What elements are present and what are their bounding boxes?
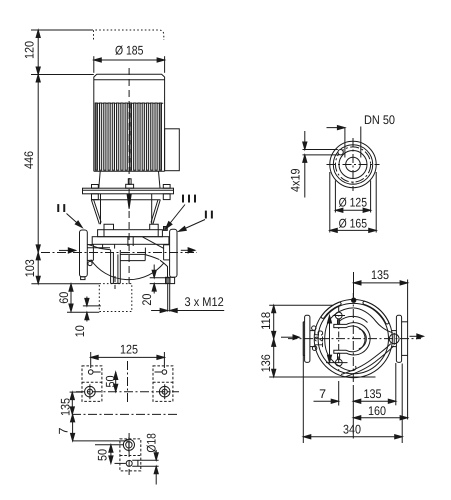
svg-text:III: III bbox=[180, 193, 198, 205]
dimension D18 bbox=[145, 433, 159, 484]
dimension 160 bbox=[353, 385, 407, 439]
flange centerlines bbox=[327, 138, 380, 191]
dimension 20 bbox=[140, 265, 169, 306]
rim hole upper bbox=[312, 326, 316, 330]
flow arrow out bbox=[181, 248, 195, 253]
label III bbox=[166, 193, 198, 229]
support block bbox=[166, 277, 175, 283]
lantern window sill left bbox=[104, 224, 114, 230]
kidney slot upper right bbox=[363, 301, 389, 324]
casing center boss bbox=[128, 237, 133, 246]
motor centerline bbox=[128, 68, 130, 288]
break centerline bbox=[72, 413, 178, 415]
svg-text:125: 125 bbox=[312, 330, 326, 348]
svg-text:135: 135 bbox=[59, 398, 73, 416]
motor shaft stub bbox=[126, 179, 134, 188]
flange F1 foot bbox=[81, 277, 85, 280]
flow arrow out top bbox=[410, 334, 424, 339]
svg-text:4x19: 4x19 bbox=[288, 168, 302, 192]
bearing arc bbox=[340, 316, 368, 322]
svg-text:50: 50 bbox=[104, 375, 118, 387]
svg-text:Ø18: Ø18 bbox=[145, 433, 159, 452]
foot pad center dashed bbox=[120, 439, 141, 471]
motor end bell bbox=[99, 171, 160, 188]
svg-text:20: 20 bbox=[140, 294, 154, 306]
coupling spike bbox=[127, 194, 131, 209]
svg-text:125: 125 bbox=[120, 342, 138, 356]
terminal box bbox=[165, 129, 180, 171]
svg-text:340: 340 bbox=[343, 422, 361, 436]
flange F4 right top bbox=[392, 315, 408, 362]
volute flange face circle bbox=[318, 303, 388, 373]
pilot hole left bbox=[88, 370, 100, 375]
rib centerline white dashes bbox=[129, 104, 131, 170]
feet centerlines bbox=[76, 361, 179, 404]
dimension 340 bbox=[303, 322, 402, 443]
svg-text:50: 50 bbox=[96, 449, 110, 461]
dimension 60 bbox=[57, 284, 100, 313]
flange raised face bbox=[339, 151, 367, 179]
dimension 120 bbox=[23, 30, 41, 75]
kidney slot upper left bbox=[321, 302, 341, 318]
dimension D125 flange bbox=[335, 181, 370, 213]
bolt B2 nut bbox=[163, 194, 170, 200]
gauge hole G1 bbox=[333, 312, 345, 324]
dimension 103 bbox=[23, 252, 40, 283]
dimension 50 center bbox=[96, 445, 126, 464]
foot pad left dashed bbox=[82, 366, 102, 402]
dimension 136 bbox=[259, 339, 376, 377]
bolt B1 head bbox=[92, 185, 99, 189]
dimension 446 bbox=[22, 75, 40, 253]
svg-text:Ø 125: Ø 125 bbox=[339, 195, 367, 209]
svg-text:135: 135 bbox=[371, 268, 389, 282]
gauge hole G2 bbox=[326, 353, 348, 366]
dimension 125 feet bbox=[91, 342, 165, 368]
svg-text:446: 446 bbox=[22, 151, 36, 169]
vent dot bbox=[352, 298, 356, 302]
extension line base plane bbox=[31, 283, 99, 285]
svg-text:10: 10 bbox=[73, 325, 87, 337]
svg-text:3 x M12: 3 x M12 bbox=[185, 295, 224, 309]
dimension 135 top bbox=[354, 268, 408, 420]
svg-text:7: 7 bbox=[319, 387, 326, 401]
dimension 10 bbox=[73, 297, 101, 338]
pilot hole right bbox=[155, 370, 167, 375]
center foot centerline bbox=[95, 433, 129, 478]
rim hole lower bbox=[312, 346, 316, 350]
motor M1 cap bbox=[94, 74, 165, 80]
seal chamber omega bbox=[334, 323, 370, 355]
bolt B2 head bbox=[163, 185, 170, 189]
casing cover plate bbox=[92, 237, 169, 249]
port centerline bbox=[41, 252, 197, 254]
wire extension line top (optional motor height) bbox=[31, 29, 93, 31]
seal detail block III bbox=[164, 227, 168, 231]
volute inner wall bbox=[325, 308, 393, 371]
svg-text:103: 103 bbox=[23, 259, 37, 277]
drain column bbox=[111, 250, 121, 284]
drain centerline bbox=[114, 276, 116, 289]
label II right bbox=[179, 209, 215, 231]
svg-text:II: II bbox=[55, 203, 67, 215]
dimension 118 bbox=[259, 305, 333, 339]
stud M12 bbox=[168, 284, 170, 312]
gauge holes centerline bbox=[338, 307, 340, 371]
dimension D165 flange bbox=[330, 172, 376, 233]
svg-text:60: 60 bbox=[57, 292, 71, 304]
discharge boss bbox=[389, 333, 399, 345]
lantern body bbox=[91, 194, 160, 224]
dimension 125 top bbox=[312, 316, 332, 363]
flow arrow in bbox=[59, 248, 76, 253]
foot pad right dashed bbox=[153, 366, 173, 402]
flange F2 right bbox=[170, 229, 177, 277]
dimension D185 bbox=[94, 44, 165, 73]
svg-text:136: 136 bbox=[259, 354, 273, 372]
svg-text:Ø 185: Ø 185 bbox=[115, 44, 143, 58]
bolt B1 nut bbox=[92, 194, 99, 200]
dimension 7 feet bbox=[57, 414, 128, 441]
svg-text:7: 7 bbox=[57, 427, 71, 434]
optional taller motor dashed outline bbox=[94, 30, 164, 40]
dimension 50 feet bbox=[104, 372, 118, 392]
label DN 50 bbox=[327, 113, 396, 158]
label II left bbox=[55, 203, 82, 228]
label 3 x M12 bbox=[151, 295, 224, 313]
svg-text:160: 160 bbox=[368, 404, 386, 418]
motor cooling ribs bbox=[95, 103, 163, 170]
svg-text:118: 118 bbox=[259, 312, 273, 330]
svg-text:DN 50: DN 50 bbox=[364, 113, 395, 127]
drain hole D18 bbox=[126, 460, 158, 466]
flange bolt circle bbox=[335, 147, 370, 182]
seal housing band bbox=[98, 230, 163, 237]
lantern flange plate bbox=[83, 188, 174, 194]
volute outer circle bbox=[314, 300, 392, 378]
flange bolt hole bbox=[338, 150, 343, 155]
extension line motor top bbox=[31, 74, 94, 76]
flow arrow in top bbox=[281, 335, 300, 340]
dashed service box bbox=[99, 284, 132, 312]
anchor bolt left bbox=[85, 384, 96, 399]
svg-text:Ø 165: Ø 165 bbox=[339, 216, 367, 230]
svg-text:135: 135 bbox=[364, 387, 382, 401]
motor M1 body bbox=[94, 77, 165, 172]
flange F3 left top bbox=[303, 315, 314, 362]
flange plug bbox=[88, 261, 92, 265]
lantern window sill right bbox=[150, 224, 159, 230]
dimension 7 top bbox=[314, 381, 339, 406]
volute casing bbox=[87, 237, 169, 280]
svg-text:120: 120 bbox=[23, 41, 37, 59]
anchor bolt right bbox=[159, 384, 170, 399]
dimension 135 feet bbox=[59, 392, 83, 416]
dimension 135 bottom bbox=[353, 363, 396, 405]
flange F1 left bbox=[80, 230, 88, 277]
flange outer circle bbox=[330, 141, 376, 187]
anchor bolt center bbox=[123, 437, 134, 452]
top view centerlines bbox=[288, 293, 421, 384]
flange ring circle bbox=[333, 145, 372, 184]
discharge channel walls bbox=[341, 344, 394, 378]
flange bore DN50 bbox=[346, 157, 361, 172]
dimension 4x19 bbox=[288, 131, 338, 198]
